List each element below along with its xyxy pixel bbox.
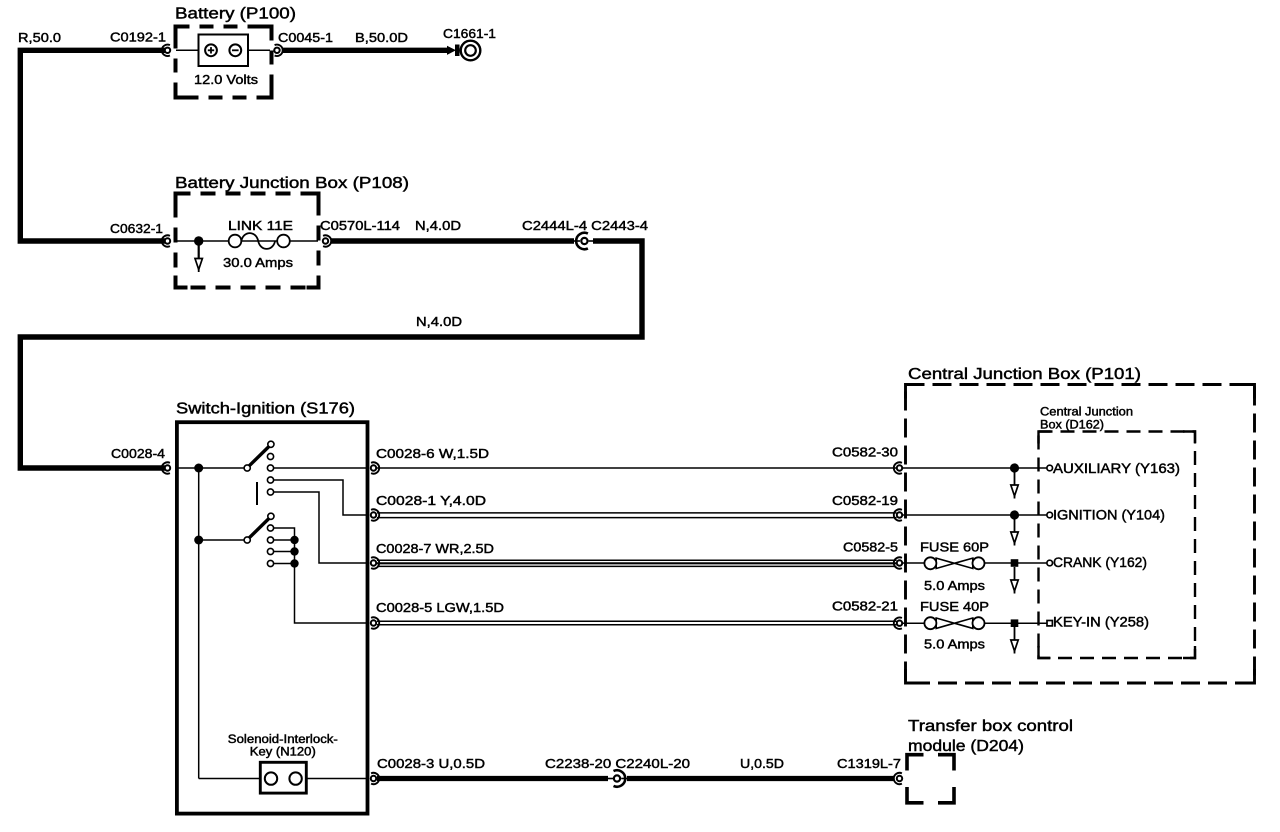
wire WR,2.5D triple (377, 560, 897, 566)
svg-text:C0632-1: C0632-1 (110, 221, 163, 236)
svg-text:C2238-20 C2240L-20: C2238-20 C2240L-20 (545, 756, 690, 771)
wire contact4 bus to C0028-5 (274, 528, 366, 623)
terminal arrow C1661-1 (447, 46, 456, 55)
svg-text:U,0.5D: U,0.5D (740, 756, 784, 771)
connector C1319L-7 (894, 773, 902, 784)
switch 2 blade (244, 513, 274, 543)
svg-text:CRANK (Y162): CRANK (Y162) (1053, 555, 1147, 570)
svg-text:C0028-6 W,1.5D: C0028-6 W,1.5D (376, 446, 489, 461)
switch 2 contacts (267, 525, 273, 567)
battery cell box (199, 35, 249, 67)
bus junction nodes (290, 536, 298, 544)
svg-text:5.0 Amps: 5.0 Amps (924, 578, 986, 593)
internal bus vertical (198, 468, 200, 779)
svg-text:Box (D162): Box (D162) (1040, 420, 1104, 432)
svg-text:N,4.0D: N,4.0D (416, 314, 462, 329)
wire KEY-IN row segments (903, 622, 925, 624)
wire feed to switch 2 (199, 539, 245, 541)
svg-text:Solenoid-Interlock-: Solenoid-Interlock- (228, 734, 338, 746)
svg-text:C0570L-114: C0570L-114 (320, 218, 400, 233)
pin IGNITION (1047, 512, 1053, 518)
switch 1 contacts (267, 453, 273, 495)
junction node (194, 536, 203, 545)
svg-text:C0192-1: C0192-1 (110, 30, 166, 45)
connector C0028-7 (371, 557, 379, 568)
battery plus terminal (205, 44, 217, 56)
connector C0192-1 (162, 45, 170, 56)
wire feed to switch 1 (176, 467, 245, 469)
wire N,4.0D down and across to switch (20, 241, 642, 468)
svg-text:C1661-1: C1661-1 (443, 26, 496, 41)
svg-text:Central Junction: Central Junction (1040, 407, 1133, 419)
wire Y,4.0D double (377, 513, 897, 518)
svg-text:Central Junction Box (P101): Central Junction Box (P101) (908, 366, 1141, 383)
svg-text:Switch-Ignition (S176): Switch-Ignition (S176) (176, 401, 355, 418)
connector C0632-1 (162, 235, 170, 246)
wire contact1 to C0028-6 (274, 467, 366, 469)
svg-text:KEY-IN (Y258): KEY-IN (Y258) (1053, 615, 1149, 630)
svg-text:C2444L-4 C2443-4: C2444L-4 C2443-4 (522, 218, 648, 233)
pin AUXILIARY (1047, 465, 1053, 471)
wire CRANK row segments (903, 562, 926, 564)
connector C0582-30 (894, 462, 902, 473)
junction node (1010, 510, 1019, 519)
connector C0045-1 (274, 45, 282, 56)
wire U,0.5D from C0028-3 (377, 776, 608, 781)
BJB box dashed (176, 194, 319, 288)
mechanical link between switch halves (256, 482, 258, 505)
svg-text:C0028-4: C0028-4 (111, 446, 165, 461)
svg-text:30.0 Amps: 30.0 Amps (223, 255, 294, 270)
svg-text:C0028-7 WR,2.5D: C0028-7 WR,2.5D (376, 541, 494, 556)
battery minus terminal (229, 44, 241, 56)
connector pair C2238-20 C2240L-20 (606, 770, 628, 786)
svg-text:AUXILIARY (Y163): AUXILIARY (Y163) (1053, 461, 1180, 476)
fusible link LINK 11E (229, 233, 290, 249)
svg-text:C0028-5 LGW,1.5D: C0028-5 LGW,1.5D (376, 600, 504, 615)
wire B,50.0D (283, 48, 449, 53)
arrow to ground ref (195, 245, 202, 272)
wire R,50.0 thick from left edge to battery, down to BJB (20, 50, 165, 241)
wire inside BJB (176, 240, 318, 242)
svg-text:module (D204): module (D204) (908, 738, 1024, 755)
svg-text:R,50.0: R,50.0 (18, 30, 61, 45)
svg-text:C0028-1 Y,4.0D: C0028-1 Y,4.0D (376, 493, 486, 508)
wire N,4.0D to C2444 (331, 238, 574, 243)
svg-text:Battery (P100): Battery (P100) (175, 6, 296, 23)
connector C0028-3 (371, 773, 379, 784)
arrow ref IGNITION (1011, 519, 1018, 546)
svg-text:C0582-21: C0582-21 (832, 599, 898, 614)
connector pair C2444L-4 C2443-4 (573, 233, 594, 249)
svg-text:N,4.0D: N,4.0D (415, 218, 461, 233)
connector C0028-4 (162, 462, 170, 473)
connector C0028-6 (371, 462, 379, 473)
ring terminal C1661-1 (461, 41, 481, 61)
svg-text:FUSE 40P: FUSE 40P (920, 599, 989, 614)
connector C0570L-114 (323, 235, 331, 246)
pin CRANK (1047, 560, 1053, 566)
svg-text:C0582-19: C0582-19 (832, 493, 898, 508)
wire contact2 to C0028-1 (274, 480, 366, 515)
battery box P100 dashed (176, 27, 272, 98)
svg-text:C0045-1: C0045-1 (278, 30, 333, 45)
svg-text:C1319L-7: C1319L-7 (837, 756, 901, 771)
wire AUXILIARY row (903, 467, 1047, 469)
junction node (1010, 463, 1019, 472)
svg-text:B,50.0D: B,50.0D (355, 30, 408, 45)
arrow ref AUXILIARY (1011, 472, 1018, 499)
wire U,0.5D to D204 (627, 776, 894, 781)
fuse 60P (924, 557, 984, 569)
pin KEY-IN (1047, 621, 1052, 626)
stub wires to bus (274, 539, 295, 541)
junction node square (1011, 559, 1019, 567)
wire LGW,1.5D double (377, 621, 897, 624)
connector C0028-5 (371, 617, 379, 628)
wire through solenoid (199, 778, 266, 780)
junction node (194, 464, 203, 473)
svg-text:IGNITION (Y104): IGNITION (Y104) (1053, 507, 1165, 522)
wire W,1.5D (377, 467, 897, 469)
svg-text:C0582-5: C0582-5 (843, 540, 898, 555)
svg-text:5.0 Amps: 5.0 Amps (924, 637, 986, 652)
transfer box D204 dashed (907, 755, 924, 771)
svg-text:Transfer box control: Transfer box control (908, 718, 1073, 735)
connector C0582-19 (894, 509, 902, 520)
arrow ref CRANK (1011, 567, 1018, 594)
terminal bar (455, 45, 460, 57)
svg-text:Battery Junction Box (P108): Battery Junction Box (P108) (175, 175, 409, 192)
junction node (194, 236, 203, 245)
svg-text:12.0 Volts: 12.0 Volts (194, 72, 259, 87)
fuse 40P (924, 617, 984, 629)
switch 1 blade (244, 441, 274, 471)
wire IGNITION row (903, 514, 1047, 516)
svg-text:FUSE 60P: FUSE 60P (920, 540, 989, 555)
wire inside battery (176, 49, 270, 51)
connector C0582-21 (894, 618, 902, 629)
solenoid interlock key N120 (260, 762, 306, 793)
CJB outer dashed box (906, 385, 1255, 684)
junction node square (1011, 619, 1019, 627)
svg-text:C0028-3 U,0.5D: C0028-3 U,0.5D (377, 756, 485, 771)
CJB inner dashed box D162 (1039, 432, 1196, 659)
wire contact3 to C0028-7 (274, 492, 366, 563)
svg-text:C0582-30: C0582-30 (832, 445, 898, 460)
svg-text:LINK 11E: LINK 11E (228, 218, 293, 233)
arrow ref KEY-IN (1011, 627, 1018, 654)
svg-text:Key (N120): Key (N120) (250, 747, 316, 759)
connector C0028-1 (371, 509, 379, 520)
switch box S176 (177, 422, 368, 813)
connector C0582-5 (894, 557, 902, 568)
